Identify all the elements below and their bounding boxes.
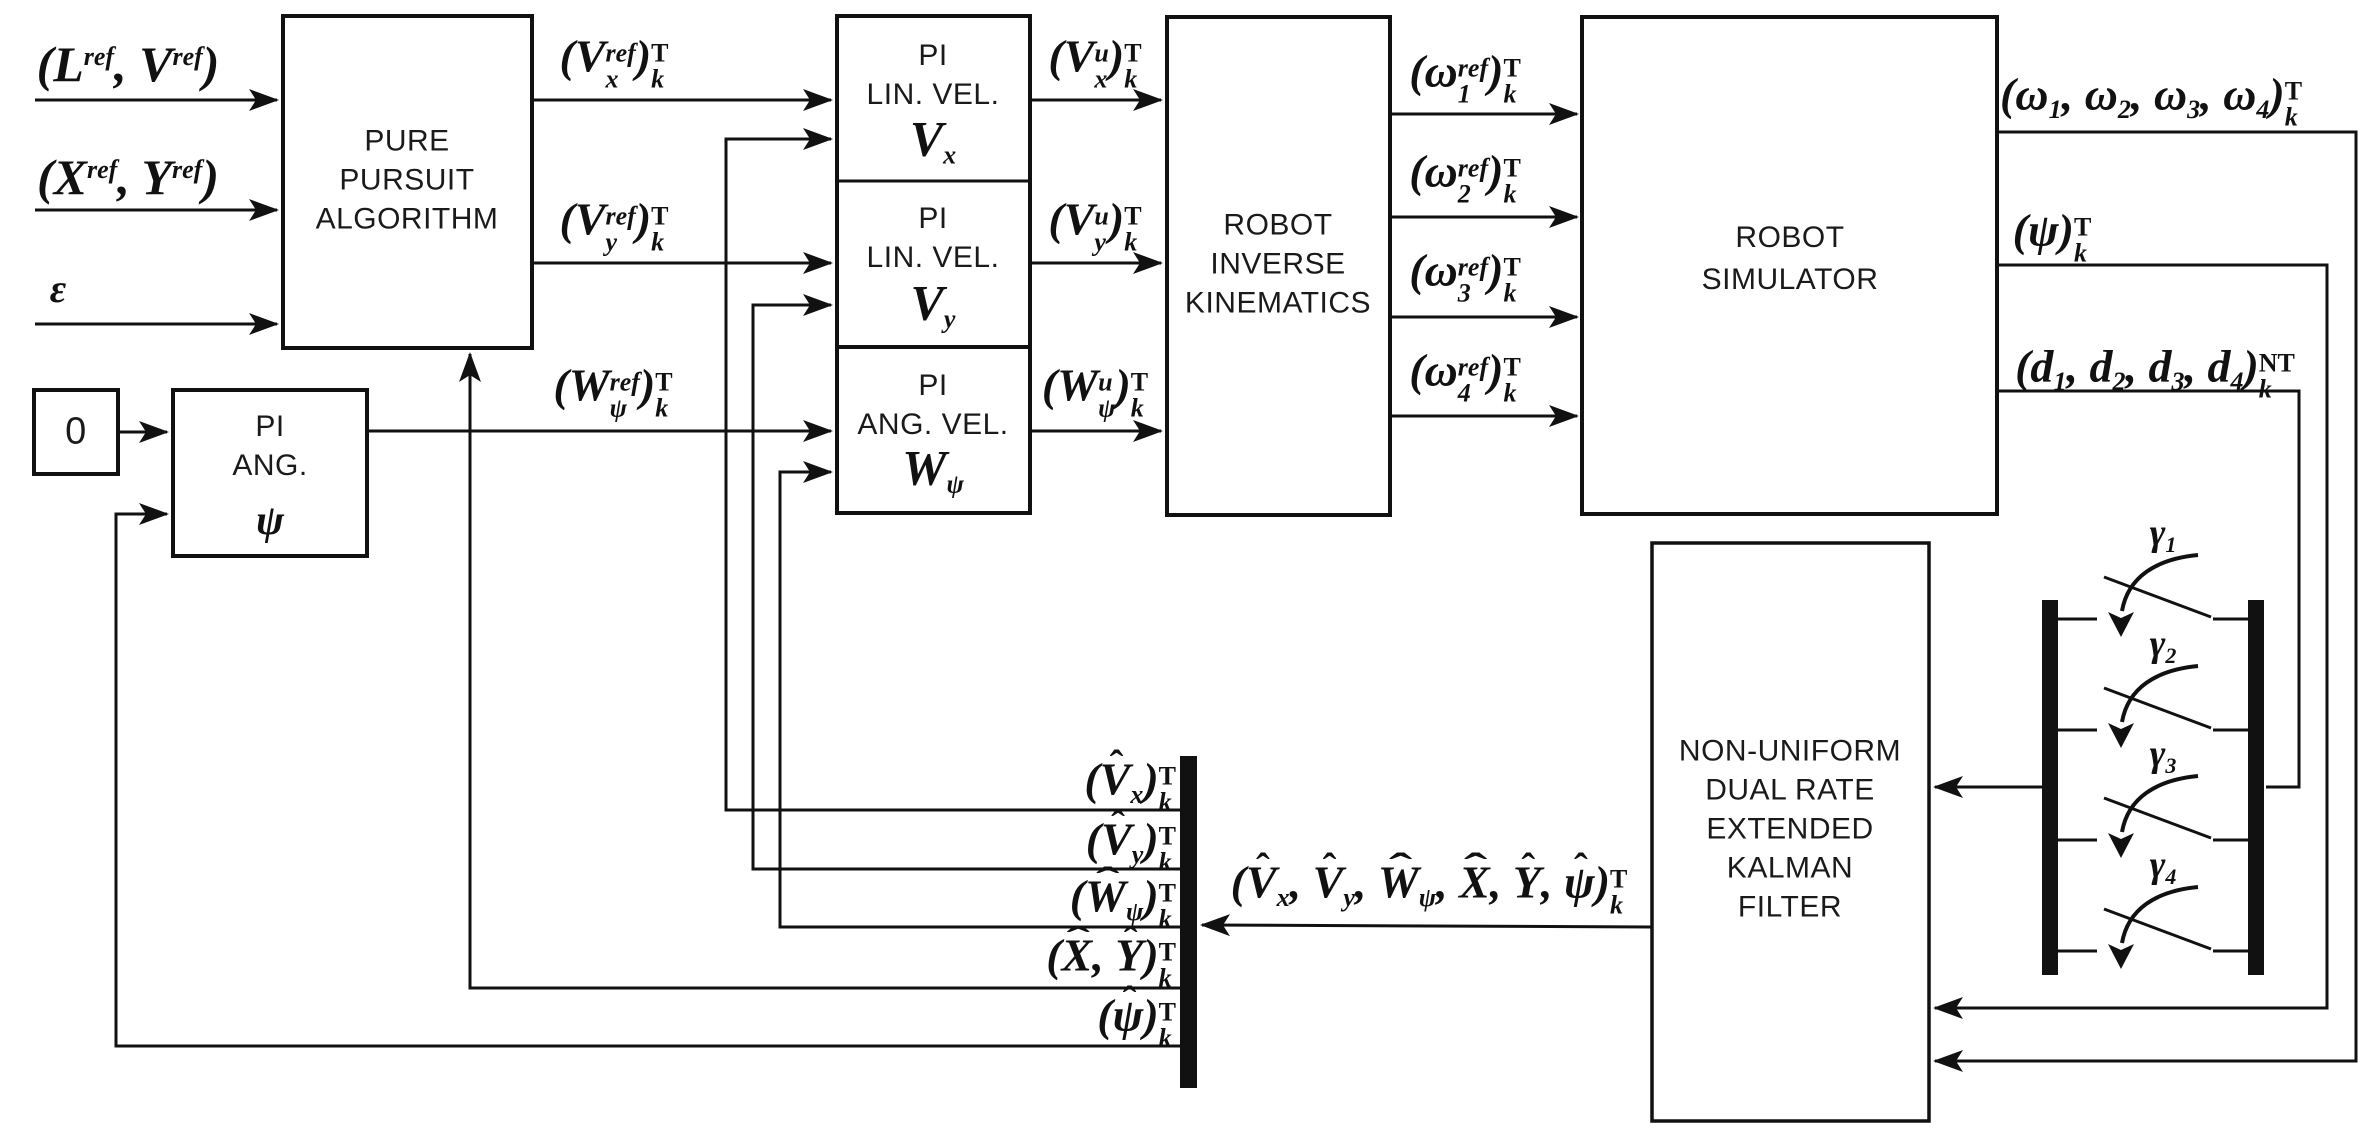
wire omega2 ref [1390,216,1577,219]
switch gamma2 [2058,666,2248,748]
label PURE PURSUIT ALGORITHM [316,122,499,239]
wire omega measurements: simulator to kalman filter [1935,132,2356,1061]
wire input (Lref,Vref) [35,99,277,102]
label (Vy hat)kT [1086,816,1176,875]
label (XY hat)kT [1046,932,1176,991]
label (Wpsi hat)kT [1070,873,1176,932]
label (omega3 ref)kT [1409,247,1521,306]
wire psi hat feedback to PI ANG [116,514,1180,1046]
label Vx math [910,113,956,168]
wire Vx ref: pure pursuit to PI Vx [532,99,831,102]
wire Vy ref: pure pursuit to PI Vy [532,262,831,265]
label (omega4 ref)kT [1409,347,1521,406]
box PI ANG psi [173,390,367,556]
wire omega4 ref [1390,415,1577,418]
box NON-UNIFORM DUAL RATE EXTENDED KALMAN FILTER [1652,543,1929,1121]
label gamma1 [2150,514,2177,556]
label PI LIN VEL Vy [867,199,1000,277]
wire kalman estimates to bus [1202,925,1652,927]
sampler right bar [2248,600,2264,975]
wire 0 to PI ANG [118,431,167,434]
label gamma4 [2150,846,2177,888]
switch gamma4 [2058,887,2248,969]
label (Lref, Vref) [37,39,220,89]
wire XY hat feedback to pure pursuit [470,354,1180,988]
divider PI Vx / PI Vy [837,180,1030,183]
divider PI Vy / PI Wpsi [837,345,1030,349]
label (Vx u)kT [1048,33,1141,92]
label (d1..4)kNT [2015,343,2295,402]
label gamma3 [2150,735,2177,777]
wire Wpsi hat feedback [780,472,1180,927]
wire input epsilon [35,323,277,326]
label (omega1..4)kT [2000,71,2302,130]
label (Vy u)kT [1048,196,1141,255]
label PI LIN VEL Vx [867,36,1000,114]
label (psi hat)kT [1097,992,1176,1051]
box PI controller stack [837,16,1030,513]
box ROBOT INVERSE KINEMATICS [1167,17,1390,515]
label ROBOT SIMULATOR [1702,217,1879,301]
label (Vx hat)kT [1084,756,1176,815]
wire psi measurement: simulator to kalman filter [1935,265,2327,1008]
label (Vy ref)kT [560,196,669,255]
wire Wpsi ref: PI ANG to PI ANG VEL [367,430,831,433]
label epsilon [50,269,66,309]
label 0 [65,413,87,452]
box ROBOT SIMULATOR [1582,17,1997,514]
label (omega1 ref)kT [1409,48,1521,107]
label (psi)kT [2013,207,2092,266]
switch gamma3 [2058,776,2248,858]
wire Vx hat feedback [726,139,1180,810]
label Wpsi math [902,442,964,497]
label (Vx ref)kT [560,33,669,92]
wire omega1 ref [1390,113,1577,116]
label (Wpsi u)kT [1042,362,1148,421]
wire Wpsi u: PI ANG VEL to inverse kinematics [1030,430,1161,433]
label (Xref, Yref) [37,152,219,202]
label ROBOT INVERSE KINEMATICS [1185,206,1371,323]
label PI ANG VEL Wpsi [857,366,1008,444]
wire sampler left bar to kalman filter [1935,786,2042,789]
sampler left bar [2042,600,2058,975]
switch gamma1 [2058,555,2248,637]
box constant 0 [34,390,118,474]
label (Wpsi ref)kT [553,362,672,421]
wire omega3 ref [1390,316,1577,319]
box PURE PURSUIT ALGORITHM [283,16,532,348]
bus bar estimates [1180,756,1197,1088]
label NON-UNIFORM DUAL RATE EXTENDED KALMAN FILTER [1679,732,1901,927]
label psi in PI ANG [256,500,284,542]
wire Vy u: PI Vy to inverse kinematics [1030,262,1161,265]
label gamma2 [2150,625,2177,667]
wire input (Xref,Yref) [35,209,277,212]
label PI ANG [232,407,307,485]
label (omega2 ref)kT [1409,148,1521,207]
label Vy math [911,277,956,332]
label kalman estimates vector [1231,859,1628,918]
wire Vy hat feedback [753,305,1180,869]
wire Vx u: PI Vx to inverse kinematics [1030,99,1161,102]
wire d measurements: simulator to sampler right bar [1997,391,2299,787]
